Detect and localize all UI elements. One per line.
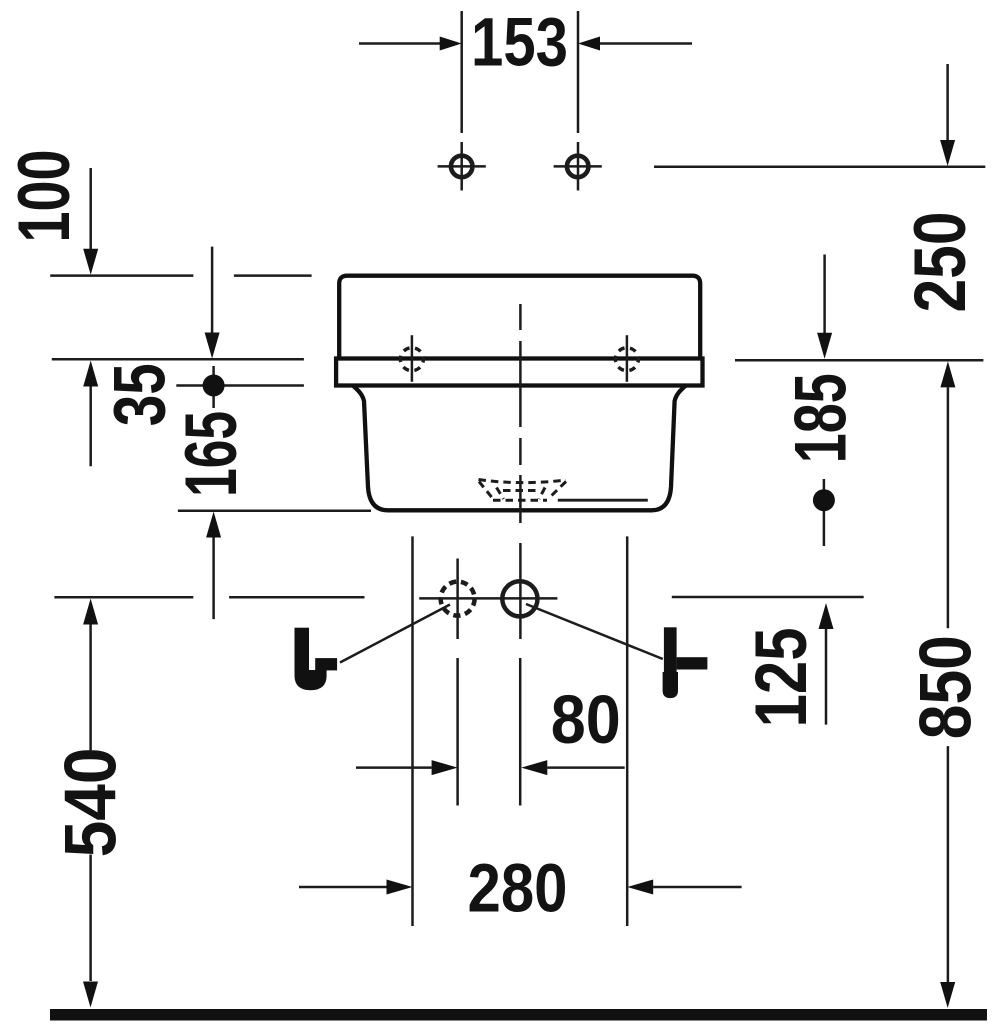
svg-text:153: 153 [471,4,568,81]
svg-text:280: 280 [468,850,568,927]
svg-text:185: 185 [781,373,862,463]
svg-text:35: 35 [100,363,181,426]
svg-text:540: 540 [51,747,132,857]
svg-text:250: 250 [900,212,981,313]
svg-text:80: 80 [551,681,621,758]
svg-text:100: 100 [4,150,85,243]
svg-text:850: 850 [906,635,987,739]
svg-text:165: 165 [171,411,252,497]
svg-text:125: 125 [741,627,822,727]
